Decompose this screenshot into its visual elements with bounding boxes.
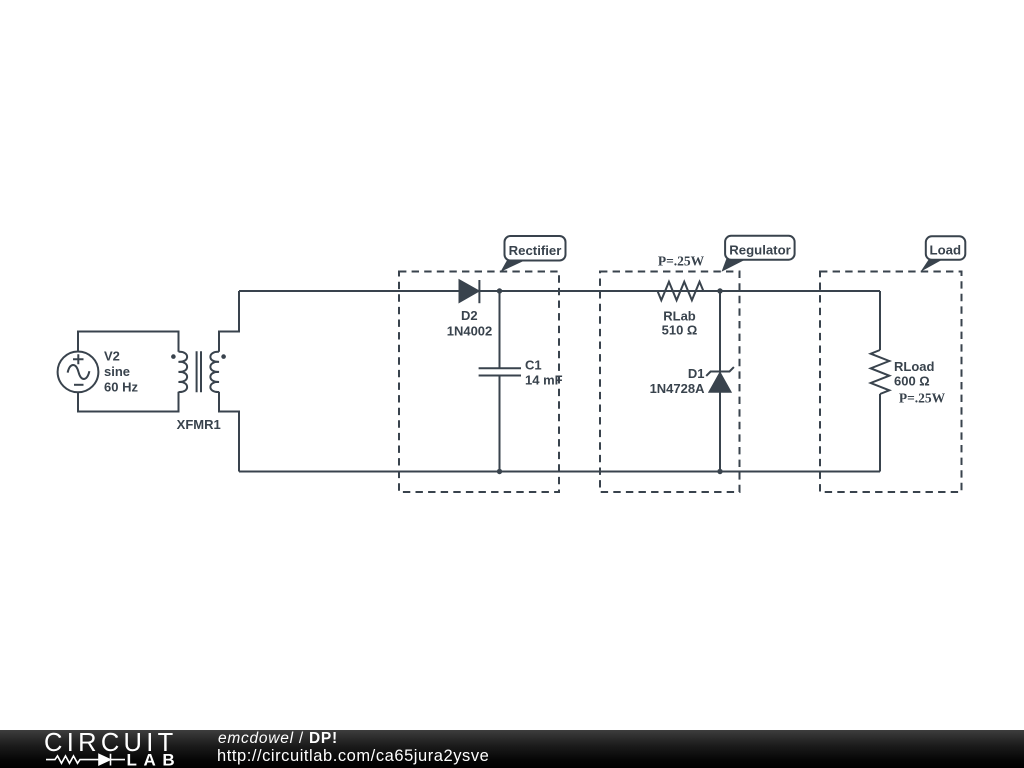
svg-text:P=.25W: P=.25W: [899, 391, 946, 406]
svg-text:C1: C1: [525, 358, 542, 373]
junction node at RLab / D1 top: [717, 288, 722, 293]
wire V2 bottom to transformer primary: [78, 392, 179, 412]
svg-text:sine: sine: [104, 364, 130, 379]
svg-text:P=.25W: P=.25W: [658, 254, 705, 269]
svg-text:600 Ω: 600 Ω: [894, 374, 930, 389]
diode D2: [460, 280, 480, 303]
junction node at D1 bottom: [717, 469, 722, 474]
Rectifier region dashed box: [399, 272, 559, 493]
wire transformer secondary bottom to bottom rail: [219, 392, 239, 472]
wire load branch top: [879, 291, 881, 350]
wire transformer secondary top to top rail: [219, 291, 239, 352]
wire V2 top to transformer primary: [78, 332, 179, 352]
resistor RLab: [658, 282, 704, 301]
footer url text: [217, 748, 489, 764]
svg-text:1N4728A: 1N4728A: [650, 381, 706, 396]
footer title text: [218, 731, 338, 747]
svg-text:14 mF: 14 mF: [525, 373, 563, 388]
resistor RLoad: [871, 350, 890, 394]
zener diode D1: [706, 367, 734, 392]
wire load branch bottom: [879, 394, 881, 472]
junction node at C1 bottom: [497, 469, 502, 474]
Regulator region dashed box: [600, 272, 740, 493]
svg-text:D2: D2: [461, 308, 478, 323]
CircuitLab logo resistor-diode symbol: [46, 754, 125, 766]
footer bar: [0, 730, 1024, 768]
svg-text:Regulator: Regulator: [729, 243, 791, 258]
wire bottom rail: [239, 471, 880, 473]
svg-text:Rectifier: Rectifier: [509, 243, 562, 258]
svg-text:RLoad: RLoad: [894, 359, 935, 374]
svg-text:XFMR1: XFMR1: [177, 417, 221, 432]
callout label Rectifier: [501, 236, 566, 272]
svg-text:60 Hz: 60 Hz: [104, 379, 138, 394]
svg-text:LAB: LAB: [127, 751, 182, 768]
junction node at D2 cathode / C1 top: [497, 288, 502, 293]
wire C1 top lead: [499, 291, 501, 368]
svg-text:1N4002: 1N4002: [447, 324, 493, 339]
callout label Regulator: [722, 236, 795, 272]
svg-text:V2: V2: [104, 349, 120, 364]
wire top rail left segment: [239, 290, 460, 292]
wire top rail middle and right segments: [479, 290, 880, 292]
Load region dashed box: [820, 272, 962, 493]
capacitor C1: [479, 368, 521, 375]
svg-text:D1: D1: [688, 366, 705, 381]
wire D1 bottom lead: [719, 392, 721, 472]
svg-text:RLab: RLab: [663, 308, 696, 323]
wire C1 bottom lead: [499, 376, 501, 472]
callout label Load: [921, 236, 966, 271]
transformer XFMR1: [171, 351, 226, 392]
wire D1 top lead: [719, 291, 721, 373]
svg-text:Load: Load: [930, 243, 962, 258]
svg-text:510 Ω: 510 Ω: [662, 322, 698, 337]
voltage source V2: [58, 352, 99, 393]
